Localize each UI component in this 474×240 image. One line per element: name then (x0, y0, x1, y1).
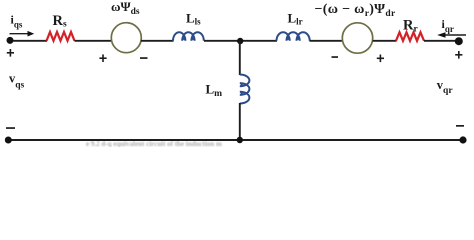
svg-text:e 9.2 d-q equivalent circuit: e 9.2 d-q equivalent circuit of the indu… (86, 140, 222, 147)
node A junction dot (top of Lm branch) (237, 38, 243, 44)
label + left of source U1 (99, 54, 106, 62)
wire: Rs to source circle (75, 40, 113, 42)
svg-text:Rs: Rs (53, 13, 67, 30)
wire: Rr to right terminal (424, 40, 459, 42)
node: right top terminal dot (455, 37, 463, 45)
svg-text:−(ω − ωr)Ψdr: −(ω − ωr)Ψdr (315, 2, 396, 19)
wire: Lm to bottom rail (239, 103, 241, 140)
node: bottom left terminal dot (5, 137, 12, 144)
current arrow iqs (pointing right) (10, 33, 29, 35)
resistor Rr zigzag (396, 32, 424, 41)
node: bottom junction dot (Lm branch) (237, 137, 243, 143)
node: left top terminal dot (7, 37, 14, 44)
label - right of source U1 (140, 57, 148, 59)
label + right of source U2 (377, 55, 384, 63)
dependent source U1 (speed voltage wPsi_ds) (111, 23, 141, 53)
svg-text:vqs: vqs (9, 72, 25, 91)
svg-text:iqs: iqs (11, 13, 23, 30)
wire: Lls through node A to Llr (204, 40, 277, 42)
svg-text:Lm: Lm (206, 82, 223, 100)
label + at left terminal (7, 49, 14, 57)
svg-text:Lls: Lls (186, 10, 201, 26)
wire: node A down to Lm (239, 41, 241, 75)
label - at bottom right (456, 125, 464, 127)
svg-text:iqr: iqr (442, 17, 454, 34)
inductor Lls coil (173, 32, 204, 41)
wire: bottom rail (8, 139, 463, 141)
wire: Llr to source U2 (310, 40, 344, 42)
label + at right terminal (455, 51, 462, 59)
resistor Rs zigzag (47, 32, 75, 41)
svg-text:vqr: vqr (437, 78, 454, 96)
svg-text:ωΨds: ωΨds (111, 0, 140, 17)
inductor Lm vertical coil (240, 75, 250, 104)
node: bottom right terminal dot (459, 136, 466, 143)
current arrow iqr (pointing left) (445, 34, 466, 36)
wire: source U2 to Rr (373, 40, 397, 42)
dependent source U2 (speed voltage -(w-wr)Psi_dr) (342, 23, 372, 53)
inductor Llr coil (277, 32, 310, 41)
wire: source to Lls (141, 40, 174, 42)
svg-text:Llr: Llr (288, 10, 303, 26)
label - at bottom left (6, 127, 15, 129)
svg-text:Rr: Rr (403, 18, 418, 35)
wire: left terminal to Rs (10, 40, 47, 42)
label - left of source U2 (332, 56, 339, 58)
